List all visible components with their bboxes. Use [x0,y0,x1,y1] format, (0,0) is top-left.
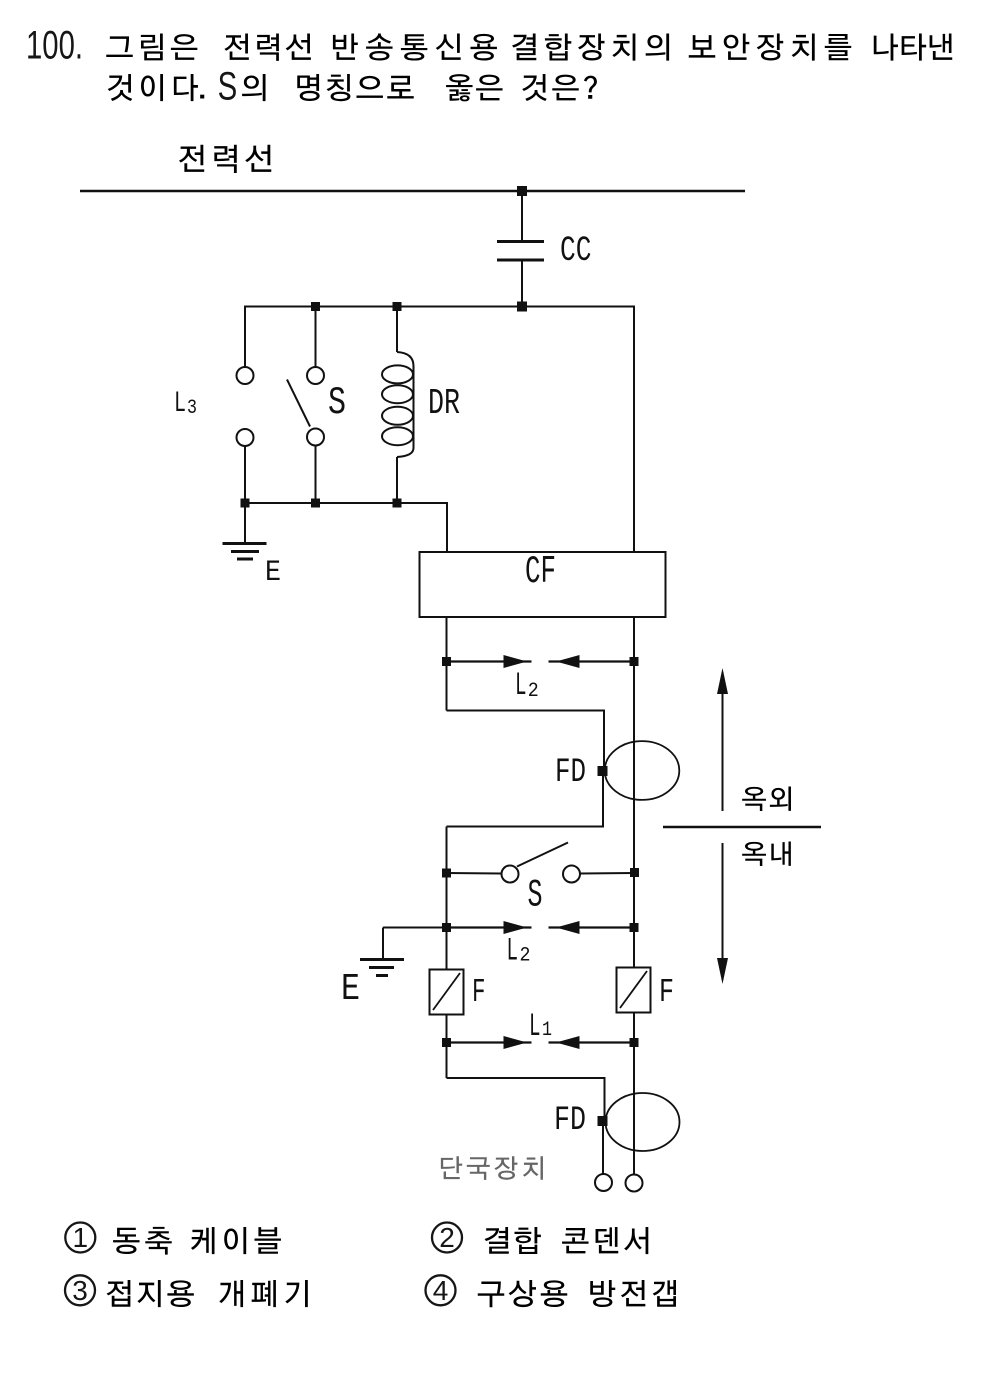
node: bus-DR junction [393,302,402,311]
ground E (upper) lead [244,503,246,544]
node: L2 upper right junction [630,657,639,666]
switch S (upper) blade [287,380,310,427]
node: switch S (lower) right junction [630,868,639,877]
wire: across to FD (lower) [447,1077,606,1079]
wire: right trunk from bus to CF [633,306,635,553]
node: power line tap junction [517,186,527,196]
wire: left arrow shaft [447,1041,532,1043]
svg-text:E: E [265,556,281,590]
svg-text:1: 1 [542,1019,552,1042]
wire: right arrow shaft [549,1041,635,1043]
node: S-bus junction [311,499,320,508]
option 4 [426,1275,456,1305]
wire: left down to L2 lower [446,873,448,928]
switch S (lower) left contact [502,866,519,883]
wire: left step across [447,710,606,712]
label 옥외 (outdoor) [742,786,791,811]
arrester L3 (gap) top lead [244,306,246,368]
node: L2 lower left junction [442,923,451,932]
wire: power line [80,190,745,193]
inductor DR coil [397,352,414,457]
question text line 2 [200,95,204,99]
wire: left down to switch [446,827,448,874]
option 3 [65,1275,95,1305]
switch S (lower) left wire [447,872,502,875]
wire: bus down to CF [446,502,448,553]
svg-text:100.: 100. [26,24,83,68]
arrester L3 bottom lead [244,446,246,504]
node: L1 right junction [630,1038,639,1047]
svg-text:F: F [472,974,486,1011]
fuse F (left) [430,970,464,1015]
svg-text:S: S [328,381,346,425]
boundary line outdoor/indoor [663,826,821,829]
ground E (lower) lead down [382,928,384,960]
svg-text:FD: FD [555,754,586,792]
capacitor CC lead top [521,191,523,241]
capacitor CC lead bottom [521,261,523,307]
switch S (upper) bottom contact [307,429,324,446]
node: bus-CC junction [517,302,527,312]
drain coil FD (lower) [606,1093,680,1151]
wire: down to FD (lower) [604,1078,606,1118]
svg-text:1: 1 [73,1222,89,1253]
node: FD (lower) tap [598,1116,608,1126]
boundary double arrow lower part [722,843,724,980]
fuse F (right) top lead [633,928,635,969]
wire: CF left output down [446,617,448,662]
switch S (lower) right wire [580,872,634,875]
capacitor CC [497,240,544,243]
wire: left step down [446,662,448,711]
svg-text:S: S [528,874,543,918]
svg-text:S: S [218,65,238,109]
svg-text:CC: CC [560,231,592,271]
wire: FD down [602,773,604,828]
arrester L3 top terminal [237,367,254,384]
wire: CF right output down [633,617,635,662]
wire: top bus [245,306,635,308]
switch S (lower) right contact [563,866,580,883]
fuse F (right) [617,968,651,1013]
node: bus-S junction [311,302,320,311]
node: DR-bus junction [393,499,402,508]
svg-text:F: F [659,974,674,1011]
ground E (lower) wire across [383,927,447,929]
terminal (right) [626,1175,643,1192]
wire: right trunk to terminal [633,1043,635,1175]
svg-text:FD: FD [554,1102,586,1140]
fuse F (left) bottom lead [446,1015,448,1044]
wire: left arrow shaft [447,926,532,928]
question text line 1 [106,34,197,61]
wire: left down to terminal [602,1123,604,1174]
node: L2 lower right junction [630,923,639,932]
ground E (upper) symbol [223,542,267,545]
ground E (lower) symbol [360,958,404,961]
node: FD (upper) tap [598,766,608,776]
terminal (left) [595,1174,612,1191]
node: L3-ground junction [241,499,250,508]
wire: left step to FD [603,711,605,769]
svg-text:E: E [341,968,360,1011]
wire: left arrow shaft [447,660,532,662]
wire: right arrow shaft [549,926,635,928]
drain coil FD (upper) [605,741,680,800]
fuse F (left) top lead [446,928,448,971]
node: L1 left junction [442,1038,451,1047]
svg-text:L: L [529,1008,541,1045]
svg-text:DR: DR [428,383,460,424]
wire: left down from L1 [446,1043,448,1079]
boundary double arrow upper part [722,672,724,811]
wire: right arrow shaft [549,660,635,662]
wire: right trunk CF to switch row [633,662,635,874]
label 단국장치 (terminal equipment) [441,1156,543,1180]
wire: lower bus of protective branch [245,502,448,504]
label 옥내 (indoor) [742,841,791,866]
inductor DR bottom lead [396,457,398,504]
switch S (upper) top lead [315,306,317,368]
node: switch S (lower) left junction [442,869,451,878]
arrester L3 bottom terminal [237,429,254,446]
svg-text:L: L [507,933,519,970]
filter CF box [420,552,666,617]
svg-text:3: 3 [187,397,197,420]
label: power line (전력선) [179,145,271,173]
switch S (upper) top contact [307,367,324,384]
svg-text:L: L [174,387,186,421]
fuse F (right) bottom lead [633,1013,635,1044]
option 2 [432,1223,462,1253]
svg-text:L: L [515,667,527,704]
wire: across to left [447,826,605,828]
svg-text:2: 2 [520,945,531,968]
svg-text:2: 2 [528,680,539,703]
svg-text:3: 3 [72,1275,88,1306]
node: L2 upper left junction [442,657,451,666]
svg-text:CF: CF [525,550,556,594]
inductor DR top lead [396,306,398,353]
svg-text:4: 4 [433,1275,449,1306]
switch S (lower) blade [517,843,568,867]
option 1 [65,1223,95,1253]
switch S (upper) bottom lead [315,446,317,505]
svg-text:2: 2 [439,1222,455,1253]
wire: right down to L2 lower [633,873,635,928]
